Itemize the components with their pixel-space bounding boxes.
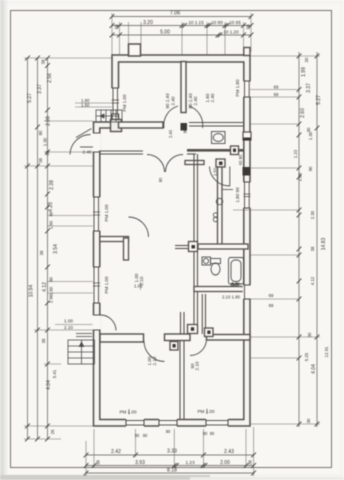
ext line right y299 bbox=[250, 298, 299, 300]
dim line right R1 bbox=[298, 52, 300, 427]
svg-text:3.37: 3.37 bbox=[306, 83, 312, 93]
svg-text:2.00: 2.00 bbox=[220, 460, 230, 466]
svg-text:PM 1.00: PM 1.00 bbox=[197, 409, 215, 414]
toilet bbox=[211, 259, 221, 276]
window WB1 (bottom wall) bbox=[126, 419, 144, 428]
entry door leaf bbox=[76, 129, 92, 138]
svg-text:1.23: 1.23 bbox=[185, 460, 195, 465]
svg-text:90: 90 bbox=[158, 177, 163, 182]
closet wall SE of living (double-line) bbox=[181, 312, 185, 334]
svg-text:90: 90 bbox=[308, 166, 313, 171]
svg-text:4.12: 4.12 bbox=[310, 276, 315, 285]
svg-text:4.04: 4.04 bbox=[46, 380, 52, 390]
svg-text:1.99: 1.99 bbox=[301, 67, 307, 77]
exterior outer outline bbox=[94, 55, 251, 426]
svg-text:4.04: 4.04 bbox=[311, 364, 317, 374]
svg-text:PM 1.00: PM 1.00 bbox=[104, 204, 109, 222]
svg-text:38: 38 bbox=[38, 158, 43, 163]
right labels (rotated) bbox=[269, 57, 329, 423]
window W4 (right wall, kitchen) bbox=[243, 182, 252, 208]
svg-text:10 1.20: 10 1.20 bbox=[223, 30, 239, 35]
living SW wall (y236) bbox=[100, 237, 129, 242]
ext line left y330 bbox=[34, 329, 93, 331]
svg-text:30: 30 bbox=[306, 127, 311, 132]
svg-text:1.50: 1.50 bbox=[49, 286, 54, 295]
ticks top B bbox=[110, 23, 115, 28]
svg-text:26: 26 bbox=[50, 429, 55, 434]
ext line right y255 bbox=[250, 254, 299, 256]
flue block F3 on corridor wall bbox=[205, 328, 214, 337]
svg-text:3.93: 3.93 bbox=[135, 460, 145, 466]
svg-text:2.40: 2.40 bbox=[83, 150, 92, 155]
flue blotch on WC south wall bbox=[231, 146, 239, 155]
tub taps bbox=[231, 283, 234, 286]
ext line x207 bbox=[206, 22, 208, 55]
ext line bottom x203.5 bbox=[203, 429, 205, 468]
ticks bottom B2 bbox=[84, 463, 89, 468]
svg-text:10.94: 10.94 bbox=[29, 285, 35, 298]
svg-text:90: 90 bbox=[203, 431, 208, 436]
svg-text:90 2.40: 90 2.40 bbox=[165, 93, 170, 109]
svg-text:69: 69 bbox=[274, 92, 279, 97]
socket symbol kitchen bbox=[213, 213, 217, 217]
svg-text:2.40: 2.40 bbox=[171, 96, 176, 105]
ext line right y358 bbox=[250, 357, 299, 359]
svg-text:38: 38 bbox=[96, 460, 101, 465]
ext line left y281.5 bbox=[47, 281, 93, 283]
ticks left L1 bbox=[25, 56, 30, 61]
entry door opening in left wall bbox=[93, 133, 101, 152]
svg-text:38: 38 bbox=[41, 338, 46, 343]
wall between top rooms bbox=[181, 62, 186, 113]
svg-text:2.08: 2.08 bbox=[46, 116, 52, 126]
ext line left y215.5 bbox=[47, 215, 93, 217]
kitchen west wall bbox=[218, 167, 223, 247]
svg-text:10 1.15: 10 1.15 bbox=[188, 20, 204, 25]
flue block F2 below corridor wall bbox=[170, 342, 178, 351]
svg-text:2.60: 2.60 bbox=[300, 108, 306, 118]
door living SW arc bbox=[129, 217, 149, 237]
svg-text:1.80 90: 1.80 90 bbox=[235, 187, 240, 203]
dim line bottom B3 bbox=[86, 472, 254, 474]
svg-text:1.05: 1.05 bbox=[134, 284, 143, 289]
kitchen north thin line bbox=[222, 189, 233, 191]
door bedroom1 arc bbox=[144, 341, 165, 362]
svg-text:2.10 1.80: 2.10 1.80 bbox=[222, 295, 241, 300]
ticks top A bbox=[110, 14, 115, 19]
window WB2 (bottom wall) bbox=[159, 419, 177, 428]
svg-text:3.37: 3.37 bbox=[37, 84, 43, 94]
svg-text:80: 80 bbox=[49, 211, 54, 216]
ext line x182 bbox=[181, 22, 183, 55]
svg-text:90: 90 bbox=[166, 429, 171, 434]
wall hall south (y160.5) bbox=[185, 161, 204, 165]
svg-text:3.33: 3.33 bbox=[167, 449, 177, 455]
entry door arc bbox=[70, 135, 91, 155]
svg-text:PM 1.80: PM 1.80 bbox=[235, 79, 240, 97]
ext line left y364 bbox=[44, 363, 61, 365]
svg-text:60 90: 60 90 bbox=[238, 154, 243, 165]
svg-text:5.27: 5.27 bbox=[27, 93, 33, 103]
ext line right y56 bbox=[251, 55, 320, 57]
ext line left y166 bbox=[24, 165, 93, 167]
ext line right y168 bbox=[250, 167, 299, 169]
door bedroom2 arc bbox=[190, 339, 207, 356]
svg-text:2.10: 2.10 bbox=[152, 356, 157, 365]
svg-text:38: 38 bbox=[114, 24, 119, 30]
door/window W7 in right wall bbox=[243, 285, 252, 299]
ext line top x112 bbox=[111, 13, 113, 55]
ext line left y121 bbox=[44, 120, 93, 122]
svg-text:12.91: 12.91 bbox=[324, 346, 329, 357]
svg-text:69: 69 bbox=[269, 293, 274, 298]
window W6 (left wall, living) bbox=[93, 197, 101, 231]
dim line top A (7.06) bbox=[112, 16, 251, 18]
svg-text:5.41: 5.41 bbox=[52, 369, 57, 378]
svg-text:1.50: 1.50 bbox=[49, 220, 54, 229]
svg-text:5.27: 5.27 bbox=[316, 95, 322, 105]
svg-text:1.50: 1.50 bbox=[81, 103, 90, 108]
parapet top-right corner bbox=[244, 48, 250, 56]
svg-text:2.40: 2.40 bbox=[193, 96, 198, 105]
sill bar / pier P1 on right wall bbox=[243, 132, 251, 140]
svg-text:62: 62 bbox=[45, 150, 50, 155]
stair lower-left (exterior) bbox=[68, 334, 95, 365]
ticks right R2 bbox=[315, 54, 320, 59]
door upper double leaf left bbox=[164, 106, 178, 128]
bottom dimension band bbox=[86, 455, 254, 473]
hall east wall below bath (double-line) bbox=[202, 294, 205, 334]
exterior inner outline bbox=[100, 62, 244, 420]
svg-text:14.83: 14.83 bbox=[321, 238, 327, 251]
wall WC south (y149) bbox=[187, 149, 243, 152]
ext line x243.5 bbox=[243, 22, 245, 50]
ext line left y152 bbox=[44, 151, 93, 153]
right dimension band bbox=[299, 52, 317, 427]
flue block F3a left bbox=[188, 325, 198, 334]
svg-text:69: 69 bbox=[274, 85, 279, 90]
svg-text:30: 30 bbox=[307, 332, 312, 337]
window W2 (right wall upper) bbox=[243, 81, 252, 97]
bedroom partition (double-line) bbox=[180, 340, 184, 420]
svg-text:2.43: 2.43 bbox=[224, 449, 234, 455]
end block of hall wall bbox=[216, 159, 225, 167]
svg-text:2.40: 2.40 bbox=[210, 93, 215, 102]
svg-text:7.06: 7.06 bbox=[170, 11, 181, 17]
dim line right R2 bbox=[316, 52, 318, 427]
svg-text:10 65: 10 65 bbox=[229, 20, 241, 25]
stair entry (upper-left) bbox=[96, 110, 122, 122]
ext line bottom x174.3 bbox=[173, 429, 175, 468]
dim line left L2 bbox=[37, 58, 39, 439]
door living double leaf left bbox=[147, 155, 165, 173]
svg-text:PM 1.00: PM 1.00 bbox=[104, 276, 109, 294]
window W1 (left wall upper) bbox=[111, 88, 120, 114]
svg-text:5.25: 5.25 bbox=[304, 352, 309, 361]
ext line bottom x135.5 bbox=[135, 429, 137, 457]
svg-text:4.23: 4.23 bbox=[48, 202, 54, 212]
ext line right y97 bbox=[250, 96, 299, 98]
svg-text:2.10: 2.10 bbox=[64, 325, 73, 330]
left labels (rotated) bbox=[27, 59, 90, 434]
ticks bottom B3 bbox=[84, 471, 89, 476]
svg-text:30: 30 bbox=[306, 418, 311, 423]
partition living/hall vertical (double-line) bbox=[194, 154, 198, 334]
svg-text:8.18: 8.18 bbox=[167, 468, 177, 474]
svg-text:80: 80 bbox=[38, 130, 43, 135]
door left-wall lower arc bbox=[101, 315, 117, 331]
left dimension band bbox=[28, 58, 48, 439]
door opening lower-left wall bbox=[93, 315, 101, 330]
ext line right y210 bbox=[233, 209, 299, 211]
washbasin WC (top) bbox=[212, 132, 226, 144]
ext line bottom x86 bbox=[85, 441, 87, 476]
ext line left y426 bbox=[24, 425, 94, 427]
scan bottom edge shading bbox=[0, 475, 210, 480]
svg-text:2.42: 2.42 bbox=[111, 449, 121, 455]
dim line bottom B2 bbox=[86, 465, 254, 467]
black pier P2 on right wall bbox=[243, 167, 251, 176]
svg-text:90: 90 bbox=[143, 433, 148, 438]
ext line left y293 bbox=[47, 292, 93, 294]
door living double leaf right bbox=[166, 155, 184, 173]
svg-text:2.05: 2.05 bbox=[298, 172, 303, 181]
svg-text:38: 38 bbox=[39, 250, 44, 255]
ext line x225 bbox=[224, 22, 226, 55]
svg-text:38: 38 bbox=[41, 59, 46, 64]
window WB3 (bottom wall) bbox=[206, 419, 228, 428]
ext line right y87 bbox=[250, 89, 299, 91]
entry dim line bbox=[80, 146, 93, 148]
svg-text:1.30: 1.30 bbox=[308, 131, 313, 140]
door upper double leaf right bbox=[189, 106, 203, 128]
bath south wall bbox=[194, 287, 244, 292]
ext line bottom x253.6 bbox=[253, 427, 255, 476]
svg-text:3.20: 3.20 bbox=[143, 20, 153, 26]
svg-text:1.50: 1.50 bbox=[213, 167, 218, 176]
svg-text:90: 90 bbox=[135, 433, 140, 438]
top dimension band bbox=[112, 17, 251, 36]
svg-text:PM 1.00: PM 1.00 bbox=[122, 94, 127, 112]
dim line bottom B1 bbox=[86, 454, 254, 456]
stair dim lines bbox=[75, 102, 112, 104]
door kitchen arc bbox=[210, 167, 230, 187]
svg-text:80: 80 bbox=[49, 277, 54, 282]
ext line right y424 bbox=[250, 423, 320, 425]
svg-text:2.30: 2.30 bbox=[310, 210, 315, 219]
ticks left L2 bbox=[35, 56, 40, 61]
door kitchen leaf bbox=[229, 167, 231, 187]
ticks bottom B1 bbox=[84, 453, 89, 458]
svg-text:1.30: 1.30 bbox=[43, 137, 48, 146]
ext line chimney x141 bbox=[140, 22, 142, 44]
dim line top C bbox=[112, 34, 251, 36]
svg-text:PM 1.00: PM 1.00 bbox=[119, 410, 137, 415]
svg-text:5.00: 5.00 bbox=[160, 30, 170, 36]
dim line left L3 bbox=[47, 58, 49, 439]
dim line top B bbox=[112, 25, 251, 27]
svg-text:2.10: 2.10 bbox=[195, 361, 200, 370]
window W5 (left wall, lower) bbox=[93, 267, 101, 303]
pier block at top-room wall end bbox=[181, 123, 188, 131]
svg-text:2.38: 2.38 bbox=[49, 180, 55, 190]
ext line left y439 bbox=[24, 438, 61, 440]
bathtub bbox=[229, 258, 244, 285]
ext line chimney x128.5 bbox=[128, 22, 130, 44]
ticks right R1 bbox=[297, 54, 302, 59]
svg-text:2.56: 2.56 bbox=[47, 73, 53, 83]
svg-text:20: 20 bbox=[304, 57, 309, 62]
ticks left L3 bbox=[45, 56, 50, 61]
flue block F1 bbox=[189, 242, 198, 252]
svg-text:38: 38 bbox=[246, 24, 251, 30]
living SW vertical wall bbox=[124, 238, 129, 260]
ext line left y226 bbox=[47, 225, 93, 227]
dim line left L1 bbox=[27, 58, 29, 439]
ext line bottom x94 bbox=[93, 429, 95, 468]
svg-text:1.23: 1.23 bbox=[293, 149, 298, 158]
wall WC north (y122) double-line bbox=[189, 123, 243, 127]
ext line bottom x246 bbox=[245, 429, 247, 468]
svg-text:90: 90 bbox=[183, 128, 188, 133]
ticks top C bbox=[110, 33, 115, 38]
kitchen/bath divider wall (y244) bbox=[175, 246, 188, 249]
ext line x251 bbox=[250, 13, 252, 52]
scan left edge shading bbox=[0, 0, 4, 480]
chimney top bbox=[129, 44, 141, 56]
vestibule north wall (jog to door pier) bbox=[119, 122, 164, 128]
svg-text:1.00: 1.00 bbox=[64, 319, 73, 324]
exterior wall band bbox=[94, 55, 251, 426]
svg-text:69: 69 bbox=[269, 303, 274, 308]
boiler circle kitchen bbox=[216, 198, 222, 204]
washbasin bath bbox=[202, 257, 211, 265]
vestibule south thin wall left (double-line) bbox=[99, 151, 196, 154]
svg-text:90: 90 bbox=[210, 431, 215, 436]
svg-text:2.40: 2.40 bbox=[168, 129, 173, 138]
svg-text:3.54: 3.54 bbox=[53, 244, 59, 254]
ext line right y124 bbox=[250, 123, 299, 125]
ext line left y58 bbox=[24, 57, 112, 59]
svg-text:10 80: 10 80 bbox=[211, 20, 223, 25]
ext line right y337 bbox=[250, 336, 320, 338]
corridor south wall (y334) segments bbox=[100, 334, 144, 342]
svg-text:38: 38 bbox=[248, 460, 253, 465]
svg-text:2.40: 2.40 bbox=[232, 282, 241, 287]
svg-text:4.12: 4.12 bbox=[42, 282, 48, 292]
svg-text:38: 38 bbox=[310, 246, 315, 251]
corner block left (jog junction) bbox=[111, 120, 122, 132]
ext line top x119.5 bbox=[119, 22, 121, 55]
